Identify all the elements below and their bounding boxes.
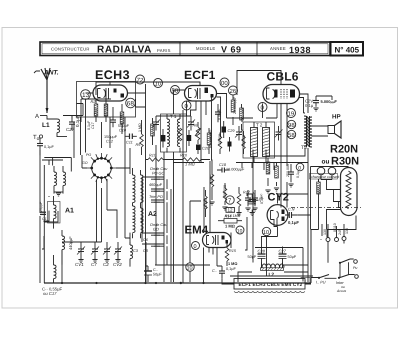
speaker HP [312, 121, 342, 138]
svg-text:R7 1MΩGO: R7 1MΩGO [209, 129, 213, 148]
svg-text:R10: R10 [180, 154, 188, 158]
resistor 300ohm [317, 179, 321, 198]
svg-text:130: 130 [345, 228, 349, 234]
paper cap C20 [196, 144, 210, 154]
svg-text:0,08μF: 0,08μF [218, 108, 222, 120]
circled 72 [136, 75, 145, 84]
N 405 box [331, 42, 364, 56]
title divider 2 [256, 42, 258, 56]
svg-text:58: 58 [172, 88, 179, 95]
wire long verticals extra [44, 110, 183, 283]
svg-text:N° 405: N° 405 [335, 46, 360, 55]
svg-text:C11: C11 [126, 141, 133, 145]
capacitor 25o left CY2 [249, 193, 265, 216]
svg-text:250.000: 250.000 [286, 164, 290, 177]
svg-text:R14: R14 [225, 215, 232, 219]
trimmer C2 [103, 242, 111, 267]
svg-text:C27: C27 [66, 127, 75, 132]
svg-text:ou C17: ou C17 [43, 291, 57, 296]
svg-text:50μμF: 50μμF [118, 124, 130, 128]
svg-text:10.000μμF: 10.000μμF [226, 168, 245, 172]
resistor 10.000 col [240, 104, 245, 130]
svg-text:1 MΩ: 1 MΩ [228, 262, 237, 266]
voltage selector plugs [322, 223, 349, 241]
svg-text:0,5 MΩ: 0,5 MΩ [267, 162, 271, 174]
capacitor C.. 0,1uF small [212, 266, 236, 278]
transformer T1 [161, 114, 187, 153]
circled 0 (ECF1) [182, 101, 191, 110]
resistor 1Mohm vertical [209, 160, 214, 201]
svg-text:12: 12 [228, 208, 234, 213]
svg-text:CV1: CV1 [75, 262, 84, 267]
svg-text:CV2: CV2 [113, 262, 122, 267]
wire socket down extra [97, 179, 118, 242]
switch interrupteur 1 [339, 259, 358, 270]
svg-text:150μμF: 150μμF [104, 135, 118, 139]
circled 13 [81, 90, 91, 100]
svg-text:10: 10 [187, 266, 193, 272]
svg-text:72: 72 [137, 77, 144, 84]
resistor 250.000 right [275, 162, 290, 186]
svg-text:5.000μμF: 5.000μμF [321, 99, 338, 104]
circled 12 [225, 208, 241, 219]
svg-text:50.000: 50.000 [242, 135, 246, 146]
svg-text:C29: C29 [228, 129, 236, 133]
capacitor C18 [217, 163, 245, 173]
terminal To [33, 134, 43, 142]
svg-text:R30N: R30N [331, 156, 359, 168]
electrolytic C27 50uF [279, 248, 297, 268]
wire CY2 connections [247, 194, 311, 260]
resistor 0,5M right [266, 158, 271, 186]
wire antenna node to ECH3 [47, 104, 83, 116]
wires selector to switches [305, 230, 355, 283]
circled 10 EM4 [236, 226, 244, 234]
wire bottom mid [146, 201, 312, 284]
wire grid line [81, 99, 111, 122]
svg-text:RADIALVA: RADIALVA [97, 45, 152, 56]
svg-text:1 MΩ: 1 MΩ [225, 224, 236, 229]
circled 26 [229, 86, 238, 95]
capacitor C27 [66, 116, 75, 133]
wire top cap line [96, 82, 200, 95]
coil right of CV2 [130, 238, 139, 267]
svg-text:C..: C.. [153, 268, 158, 272]
tube CBL6 envelope [263, 82, 300, 104]
svg-text:L2: L2 [269, 272, 275, 278]
resistor R6 var [193, 122, 202, 144]
svg-text:0: 0 [298, 165, 301, 171]
coil osc [62, 230, 73, 265]
coil L1 [42, 116, 67, 137]
circled 102 (CY2) [262, 227, 270, 236]
svg-text:0,1μF: 0,1μF [226, 267, 236, 271]
ground cluster [209, 202, 214, 205]
wire A1 to left bus [42, 160, 63, 249]
svg-text:To: To [33, 134, 40, 142]
wire CBL6 top cap [237, 71, 281, 96]
ECH3 stage box [77, 82, 136, 118]
circled 7 [226, 196, 234, 205]
wire socket to A2 [62, 155, 130, 282]
tube ECH3 envelope [93, 82, 128, 101]
coil bottom left [54, 255, 57, 283]
heater chain box [234, 279, 305, 293]
svg-text:T 1: T 1 [170, 114, 177, 119]
wire T1 to ECF1 [156, 90, 191, 282]
svg-text:C7: C7 [91, 262, 97, 267]
svg-text:V 69: V 69 [221, 45, 242, 55]
svg-text:50μF: 50μF [288, 255, 297, 259]
tube socket bottom view [82, 153, 117, 183]
svg-text:00: 00 [221, 80, 228, 87]
svg-text:1 MΩ: 1 MΩ [138, 123, 142, 132]
switch secteur [316, 275, 358, 294]
svg-text:0: 0 [194, 244, 197, 250]
trimmer caps T2 [235, 126, 243, 141]
circled 19 [287, 109, 296, 118]
ballast R20N tube [341, 168, 358, 216]
title bar outer box [40, 42, 330, 56]
wire EM4 down [204, 248, 214, 284]
wire grid ECH3 down to socket [81, 93, 111, 155]
circled 58 [171, 86, 180, 95]
svg-text:50μF: 50μF [248, 255, 257, 259]
resistor left of CY2 [236, 187, 250, 216]
capacitor 250pF cluster [245, 190, 256, 206]
svg-text:Pu: Pu [353, 266, 357, 270]
transformer T5 [301, 116, 312, 151]
wire left bus vertical [40, 150, 44, 283]
capacitor C2V 0,1u [305, 96, 319, 111]
tube ECF1 envelope [185, 83, 217, 102]
svg-text:ou: ou [322, 159, 330, 166]
wire plate to T5 [266, 148, 308, 282]
trimmer CV2 [113, 242, 122, 267]
svg-text:C1: C1 [42, 217, 47, 221]
trimmer CV1 [75, 242, 85, 267]
tube EM4 envelope [203, 233, 232, 248]
capacitor C17 label [87, 120, 95, 130]
wire A2 connections [125, 117, 171, 282]
dashed chassis line [291, 207, 363, 209]
wire EM4 connections [173, 161, 308, 282]
svg-text:T 2: T 2 [256, 123, 263, 128]
power wires [311, 167, 349, 230]
wire bottom bus [44, 282, 311, 284]
title divider 1 [179, 42, 181, 56]
circled 00 [220, 78, 229, 87]
svg-text:R15: R15 [229, 249, 237, 253]
node A [35, 113, 47, 120]
cap 50uuF C10 [118, 124, 137, 145]
dial lamp 1 [317, 167, 325, 175]
svg-text:10.000: 10.000 [218, 134, 222, 145]
svg-text:50.000: 50.000 [204, 198, 208, 209]
svg-text:MODELE: MODELE [196, 46, 215, 51]
svg-text:Accus: Accus [336, 289, 347, 293]
svg-text:A1: A1 [65, 208, 74, 215]
terminal box nt [301, 278, 310, 285]
svg-text:98: 98 [288, 122, 295, 129]
resistor R1 10.000 [120, 104, 124, 134]
circled 0 (CBL6) [258, 103, 267, 112]
svg-text:1938: 1938 [289, 45, 311, 55]
capacitor 5000ppF [321, 99, 338, 104]
svg-text:T5: T5 [301, 145, 307, 151]
resistor 50.000b [242, 131, 246, 154]
trimmer C7 [91, 242, 99, 267]
svg-text:A: A [35, 113, 39, 120]
capacitor 0,1uF label [63, 115, 83, 127]
svg-text:20.000μμF: 20.000μμF [233, 96, 237, 114]
wire ECF1 to T2 [217, 94, 254, 138]
wire CY2 to bus [266, 260, 268, 277]
svg-text:ANT.: ANT. [43, 70, 59, 77]
capacitor To 0,1uF [37, 138, 54, 151]
tube CY2 envelope [267, 205, 288, 227]
electrolytic C28 50uF [248, 248, 266, 268]
circled 110 (EM4) [192, 242, 200, 251]
svg-text:ANNEE: ANNEE [270, 46, 286, 51]
svg-text:C..: C.. [212, 269, 217, 273]
wire ECH3 out to T1 [128, 84, 146, 282]
wire ECF1 down [191, 98, 212, 163]
svg-text:10.000: 10.000 [152, 125, 156, 136]
resistor 1Mohm horizontal [177, 154, 210, 167]
resistor 10.000b [218, 133, 222, 155]
svg-text:30.000: 30.000 [104, 103, 109, 116]
svg-text:10: 10 [263, 230, 269, 236]
svg-text:0,1μF: 0,1μF [288, 220, 299, 225]
svg-text:25μμF: 25μμF [39, 201, 43, 212]
circled 68 (ECH3) [126, 98, 136, 108]
svg-text:ECH3: ECH3 [95, 68, 130, 82]
trimmer caps T1 [152, 116, 160, 131]
svg-text:I.. PU: I.. PU [316, 281, 326, 285]
resistor R10b [146, 154, 177, 162]
choke L2 [261, 264, 284, 278]
label changeur courant [310, 174, 340, 180]
wire CBL6 to output [300, 94, 333, 113]
svg-text:58: 58 [288, 132, 295, 139]
resistor 10.000 mid [151, 118, 156, 145]
svg-text:R20N: R20N [330, 144, 358, 156]
svg-text:C2: C2 [103, 262, 109, 267]
wire right bus [311, 208, 356, 283]
svg-text:changeur courant: changeur courant [311, 175, 340, 179]
svg-text:10: 10 [237, 228, 243, 234]
antenna [34, 68, 59, 113]
svg-text:PARIS: PARIS [157, 48, 171, 53]
svg-text:68: 68 [127, 101, 135, 108]
paper cap C14 [161, 129, 166, 148]
padder caps lower [143, 223, 168, 253]
svg-text:PO GO: PO GO [152, 172, 164, 176]
svg-text:L1: L1 [42, 122, 50, 129]
paper cap small [228, 137, 232, 152]
svg-text:GO: GO [82, 161, 88, 165]
svg-text:CY2: CY2 [268, 192, 289, 204]
resistor 2Mohm EM4 [218, 215, 242, 229]
svg-text:Onde Cou: Onde Cou [150, 223, 168, 227]
padder caps right of A2 [149, 167, 168, 202]
coil A2 pair [133, 168, 144, 238]
circled 58b [287, 130, 295, 139]
svg-text:50μF: 50μF [153, 273, 162, 277]
electrolytic C26 [144, 266, 162, 280]
svg-text:Onde Cou: Onde Cou [150, 167, 168, 171]
wire caps rail [230, 248, 313, 282]
gnd right cluster [265, 190, 270, 193]
wire To down [39, 151, 41, 155]
svg-text:CONSTRUCTEUR: CONSTRUCTEUR [51, 47, 90, 52]
svg-text:HP: HP [332, 114, 341, 121]
svg-text:440μμF: 440μμF [68, 236, 73, 250]
wire CBL6 down pair [281, 103, 287, 208]
wire padder right [167, 177, 210, 265]
resistor R15 under EM4 [225, 243, 237, 266]
resistor R4 30.000 [104, 99, 109, 122]
circled 0 right [296, 163, 304, 171]
cap 0,08 col [215, 104, 222, 122]
svg-text:C18: C18 [219, 163, 227, 167]
svg-text:10.000: 10.000 [241, 108, 245, 119]
circled 10 [154, 79, 163, 88]
svg-text:CBL6: CBL6 [267, 70, 299, 84]
dial lamp 2 [328, 167, 336, 175]
resistor R7 1Mohm [207, 128, 212, 154]
coil A1 pair [54, 166, 66, 196]
svg-text:0,1μ: 0,1μ [296, 171, 300, 178]
capacitor C11 150pF [104, 107, 118, 144]
svg-text:C17: C17 [91, 121, 95, 129]
circled 98 [287, 120, 295, 129]
svg-text:130: 130 [323, 229, 327, 235]
capacitor C1 [40, 212, 47, 221]
resistor R6 [178, 128, 182, 141]
svg-text:100.000: 100.000 [223, 185, 227, 198]
svg-text:0,1μF: 0,1μF [44, 145, 54, 149]
cap 0,55uF label [42, 287, 63, 297]
svg-text:250: 250 [93, 108, 98, 115]
resistor R5 [136, 120, 144, 155]
wire T2 to CBL6 [253, 104, 281, 263]
resistor 50.000 left [204, 190, 208, 217]
paper cap under T1 right [187, 130, 191, 146]
svg-text:PO: PO [86, 153, 91, 157]
svg-text:C10: C10 [119, 129, 127, 133]
circled 107 [186, 263, 194, 272]
resistor 100.000 [223, 183, 227, 205]
svg-text:R2: R2 [91, 99, 97, 104]
resistor R2 [91, 99, 99, 122]
svg-text:C.N: C.N [288, 208, 295, 212]
svg-text:19: 19 [288, 111, 295, 118]
cap 0,1u right [288, 164, 300, 182]
svg-text:ECF1: ECF1 [184, 68, 216, 82]
capacitor right CY2 0,1uF [285, 208, 299, 226]
paper cap C29 [222, 121, 236, 138]
svg-text:0,1μ: 0,1μ [305, 103, 314, 108]
capacitor 0,1u mid [252, 190, 264, 206]
svg-text:300Ω: 300Ω [317, 185, 321, 194]
resistor 20.000 col [231, 95, 237, 125]
transformer T2 [243, 122, 275, 163]
coil A1b in box [39, 196, 60, 229]
svg-text:26: 26 [230, 88, 237, 95]
